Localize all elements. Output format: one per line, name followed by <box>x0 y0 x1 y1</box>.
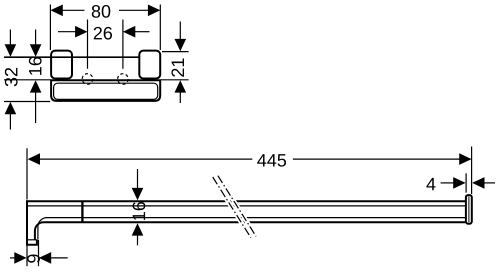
dim 445: right arrowhead (points right) <box>459 153 471 165</box>
dim 4: left tail line <box>441 182 454 184</box>
dim 4: left extension line <box>465 173 467 192</box>
side view: rail top edge <box>26 200 465 202</box>
break mark: white casing line A <box>213 177 251 238</box>
dim 26: left extension line <box>87 20 89 69</box>
side view: rail inner top line <box>28 205 465 207</box>
dim 16 side view: upper arrowhead (points down) <box>132 188 144 200</box>
dim 9: right tail line <box>50 257 67 259</box>
dim 445: label <box>257 154 286 167</box>
dim 445: left extension line <box>26 148 28 199</box>
dim 26: left tail line <box>58 31 76 33</box>
side view: joint seam between arm and rail <box>81 201 83 224</box>
dim 4: label <box>426 178 435 190</box>
dim 80: left line segment <box>62 9 85 11</box>
dim 16 side view: lower arrow stem <box>137 235 139 246</box>
dim 21: top extension line <box>162 51 189 53</box>
top view: left wall-post P1 <box>51 51 72 79</box>
dim 26: left arrowhead (points right) <box>75 26 87 38</box>
dim 445: right extension line <box>471 147 473 195</box>
break mark: dash-dot line B <box>218 176 256 237</box>
dim 9: left extension line <box>26 246 28 267</box>
dim 80: label <box>92 5 111 18</box>
break mark: white casing line B <box>218 176 256 237</box>
dim 21: lower arrowhead (points up) <box>175 80 187 92</box>
dim 26: label <box>94 27 112 40</box>
dim 80: left extension line <box>49 5 51 51</box>
dim 26: right tail line <box>135 31 150 33</box>
top view: right wall-post P2 <box>139 51 160 79</box>
dim 26: right arrowhead (points left) <box>123 26 135 38</box>
dim 80: left arrowhead <box>50 5 62 17</box>
left extension line at bar top y79.8 <box>4 79 50 81</box>
top view: extension line at y57 (dip edge, crosses left post) <box>4 56 141 58</box>
dim 16 side view: label (rotated) <box>133 202 146 220</box>
dim 9: left arrowhead (points right) <box>14 252 26 264</box>
dim 21: upper arrowhead (points down) <box>175 39 187 51</box>
dim 16 top view: label (rotated) <box>29 57 42 75</box>
dim 16 top view: lower arrowhead (points up) <box>30 80 42 92</box>
top view: base bar inner line <box>54 83 158 99</box>
dim 9: right arrowhead (points left) <box>39 252 51 264</box>
side view: rail bottom edge + outer bend <box>35 222 465 239</box>
dim 80: right extension line <box>159 5 161 51</box>
dim 21: bottom extension line <box>161 79 189 81</box>
top view: hidden screw hole left (dashed) <box>82 74 93 85</box>
dim 9: left tail line <box>10 257 15 259</box>
dim 32: upper arrowhead (points down) <box>5 44 17 56</box>
dim 80: right line segment <box>119 9 149 11</box>
dim 32: label (rotated) <box>5 68 18 86</box>
dim 80: right arrowhead <box>148 5 160 17</box>
dim 4: right tail line <box>484 182 495 184</box>
side view: arm left (wall) edge <box>26 200 28 245</box>
dim 32: upper arrow stem <box>9 30 11 47</box>
dim 4: right arrowhead (points left) <box>472 177 484 189</box>
dim 21: label (rotated) <box>171 58 184 76</box>
top view: base bar outline <box>51 80 160 101</box>
dim 9: right extension line <box>38 240 40 266</box>
dim 16 top view: upper arrow stem <box>35 30 37 47</box>
break mark: dash-dot line A <box>213 177 251 238</box>
dim 21: upper arrow stem <box>179 22 181 41</box>
side view: foot top line <box>26 239 37 241</box>
dim 16 side view: upper arrow stem <box>137 169 139 190</box>
dim 32: lower arrowhead (points up) <box>5 102 17 114</box>
dim 445: right line segment <box>293 158 460 160</box>
dim 32: lower arrow stem <box>9 114 11 130</box>
dim 16 side view: lower arrowhead (points up) <box>132 223 144 235</box>
left extension line at bar bottom y101.4 <box>4 101 50 103</box>
dim 445: left line segment <box>39 158 252 160</box>
side view: end cap inner line <box>468 197 470 223</box>
dim 21: lower arrow stem <box>179 92 181 103</box>
dim 4: left arrowhead (points right) <box>453 177 465 189</box>
side view: rail inner bottom line + inner bend <box>38 218 465 240</box>
dim 445: left arrowhead (points left) <box>28 153 40 165</box>
dim 16 top view: lower arrow stem <box>35 92 37 123</box>
dim 26: right extension line <box>122 20 124 69</box>
side view: end cap <box>466 195 472 224</box>
top view: hidden screw hole right (dashed) <box>118 74 129 85</box>
dim 9: label (rotated) <box>27 254 40 262</box>
side view: foot right + bottom edge <box>26 240 37 245</box>
dim 16 top view: upper arrowhead (points down) <box>30 44 42 56</box>
